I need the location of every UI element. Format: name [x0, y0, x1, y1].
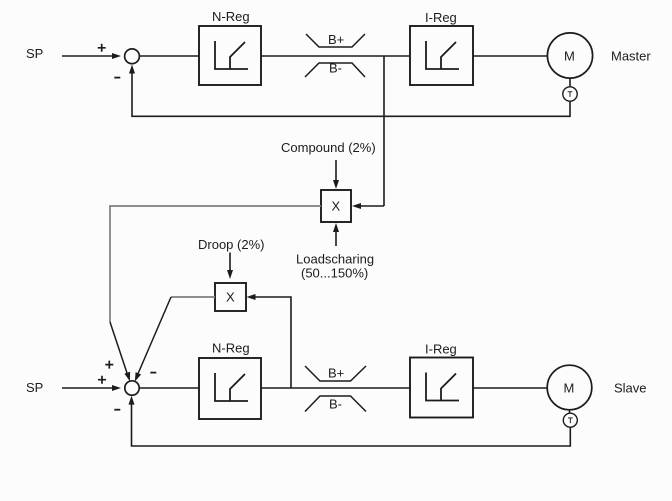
block N-Reg (slave speed regulator) [199, 358, 261, 419]
limiter symbol B- (master) [305, 61, 365, 78]
svg-text:(50...150%): (50...150%) [301, 266, 368, 281]
wire compound diagonal into slave summing junction with arrowhead [110, 322, 130, 381]
motor M (slave) [547, 365, 592, 410]
svg-text:M: M [564, 49, 575, 64]
plus sign at slave compound input [105, 361, 113, 369]
PI step-response icon inside master N-Reg [215, 41, 248, 69]
wire SP to master summing junction with arrowhead [62, 53, 121, 59]
svg-text:B-: B- [329, 61, 342, 76]
multiplier X1 (compound) [321, 190, 351, 222]
wire N-Reg to I-Reg (master) [261, 55, 410, 57]
svg-text:B+: B+ [328, 366, 344, 381]
wire slave speed feedback to summing junction with arrowhead [129, 396, 571, 446]
wire slave tap into multiplier X2 with arrowhead [247, 294, 292, 388]
PI step-response icon inside master I-Reg [426, 41, 459, 69]
wire summing junction to N-Reg (slave) [139, 387, 199, 389]
svg-text:B-: B- [329, 397, 342, 412]
limiter symbol B- (slave) [305, 396, 366, 412]
wire summing junction to N-Reg (master) [140, 55, 200, 57]
wire Compound label to multiplier X1 with arrowhead [333, 160, 339, 189]
block N-Reg (master speed regulator) [199, 26, 261, 85]
svg-text:Loadscharing: Loadscharing [296, 252, 374, 267]
plus sign at master summing input [98, 44, 106, 52]
PI step-response icon inside slave I-Reg [426, 373, 459, 401]
block I-Reg (slave current regulator) [410, 358, 473, 418]
summing junction S1 (master) [125, 49, 140, 64]
minus sign at slave droop input [150, 372, 156, 374]
svg-text:I-Reg: I-Reg [425, 342, 457, 357]
wire master tap into multiplier X1 with arrowhead [352, 203, 384, 209]
svg-text:Master: Master [611, 49, 651, 64]
limiter symbol B+ (slave) [305, 366, 366, 382]
svg-text:X: X [226, 290, 235, 305]
wire master speed feedback to summing junction with arrowhead [129, 65, 570, 117]
motor M (master) [547, 33, 592, 78]
tacho T (master) [563, 87, 577, 101]
svg-text:I-Reg: I-Reg [425, 10, 457, 25]
wire droop diagonal into slave summing junction with arrowhead [135, 297, 171, 382]
wire motor to tacho (slave) [569, 410, 571, 414]
summing junction S2 (slave) [125, 381, 139, 395]
wire N-Reg to I-Reg (slave) [261, 387, 410, 389]
block I-Reg (master current regulator) [410, 26, 473, 85]
wire I-Reg to motor (slave) [473, 387, 548, 389]
minus sign at slave feedback input [114, 409, 120, 411]
multiplier X2 (droop) [215, 283, 246, 311]
PI step-response icon inside slave N-Reg [215, 373, 248, 401]
svg-text:SP: SP [26, 380, 43, 395]
limiter symbol B+ (master) [306, 32, 365, 47]
wire Loadscharing input into multiplier X1 with arrowhead [333, 223, 339, 246]
svg-text:B+: B+ [328, 32, 344, 47]
wire SP to slave summing junction with arrowhead [62, 385, 121, 391]
svg-text:N-Reg: N-Reg [212, 341, 250, 356]
svg-text:M: M [564, 381, 575, 396]
svg-text:Droop (2%): Droop (2%) [198, 237, 264, 252]
wire droop output (grey) leftward [171, 296, 215, 298]
svg-text:N-Reg: N-Reg [212, 9, 250, 24]
svg-text:SP: SP [26, 46, 43, 61]
wire I-Reg to motor (master) [473, 55, 548, 57]
wire Droop label to multiplier X2 with arrowhead [227, 253, 233, 280]
plus sign at slave SP input [98, 376, 106, 384]
wire motor to tacho (master) [569, 78, 571, 87]
wire compound output (grey) to slave summing junction [110, 206, 321, 322]
tacho T (slave) [563, 413, 577, 427]
svg-text:Slave: Slave [614, 381, 647, 396]
svg-text:Compound (2%): Compound (2%) [281, 140, 376, 155]
wire tap junction to compound multiplier [383, 56, 385, 206]
svg-text:X: X [332, 199, 341, 214]
minus sign at master feedback input [114, 77, 120, 79]
